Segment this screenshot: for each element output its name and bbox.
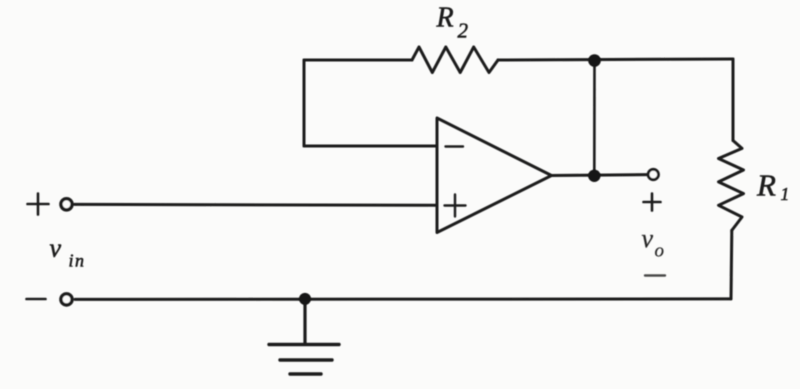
wire top from R2 to right corner — [498, 59, 733, 60]
svg-text:R: R — [436, 3, 454, 34]
ground symbol bar 1 — [269, 343, 339, 346]
op-amp inverting input minus symbol — [446, 145, 464, 147]
svg-text:1: 1 — [781, 184, 790, 204]
junction dot output node — [588, 170, 600, 182]
svg-text:v: v — [642, 224, 654, 253]
wire right vertical bottom segment — [730, 230, 734, 299]
wire feedback bottom horizontal to inverting input — [304, 145, 437, 148]
wire top feedback horizontal left segment — [304, 59, 412, 62]
wire feedback left vertical — [303, 60, 306, 146]
svg-text:in: in — [69, 251, 86, 271]
svg-text:R: R — [756, 168, 776, 203]
wire right vertical top segment — [732, 59, 735, 141]
junction dot top — [588, 54, 601, 67]
junction dot ground node — [299, 293, 311, 305]
resistor R2 — [412, 47, 498, 73]
ground symbol bar 2 — [280, 358, 332, 361]
terminal circle input bottom — [61, 294, 72, 305]
ground symbol bar 3 — [290, 372, 321, 375]
wire vertical from top junction to output junction — [593, 60, 596, 176]
svg-text:v: v — [50, 234, 62, 263]
svg-text:o: o — [655, 241, 665, 262]
op-amp non-inverting input plus symbol — [445, 195, 466, 217]
minus sign input polarity — [27, 298, 46, 301]
op-amp U1 — [437, 118, 552, 233]
plus sign output polarity — [644, 194, 661, 211]
wire op-amp output — [552, 173, 648, 177]
wire non-inverting input from left terminal — [75, 203, 438, 207]
terminal circle output — [648, 169, 658, 179]
plus sign input polarity — [28, 194, 49, 215]
minus sign output polarity — [645, 274, 665, 276]
resistor R1 — [719, 141, 744, 231]
svg-text:2: 2 — [458, 19, 469, 43]
terminal circle input top — [61, 199, 72, 210]
wire bottom rail — [75, 297, 731, 301]
wire ground stub — [303, 299, 306, 344]
